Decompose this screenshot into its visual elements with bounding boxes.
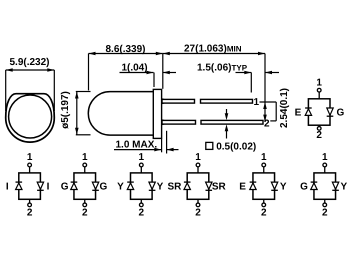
wire pin1 to box S3 [140, 167, 142, 173]
svg-text:Y: Y [117, 182, 124, 193]
wire pin1 to box S2 [84, 167, 86, 173]
bicolor LED symbol S3 [117, 152, 164, 219]
svg-text:G: G [99, 182, 107, 193]
svg-text:ø5(.197): ø5(.197) [60, 91, 71, 129]
svg-text:G: G [61, 182, 69, 193]
pin 1 terminal circle U7 [317, 88, 321, 92]
bicolor LED symbol S1 [6, 152, 50, 219]
right diode (Y) of S6 [332, 182, 338, 189]
wire pin1 to box S4 [197, 167, 199, 173]
box outline S6 [314, 173, 336, 199]
wire pin1 to box S6 [324, 167, 326, 173]
LED top view outer flange circle [6, 94, 55, 142]
dimension phi5(.197) body diameter [60, 91, 91, 135]
pin 1 terminal circle S1 [28, 163, 32, 167]
LED side view epoxy body with dome [88, 92, 153, 136]
wire box to pin2 S3 [140, 199, 142, 203]
svg-text:1(.04): 1(.04) [121, 63, 147, 74]
left diode (E) of S5 [250, 181, 257, 183]
svg-text:2: 2 [27, 208, 33, 219]
svg-text:0.5(0.02): 0.5(0.02) [216, 142, 256, 153]
dimension 8.6(.339) body length [89, 44, 163, 90]
wire box to pin2 U7 [318, 125, 320, 126]
svg-text:1: 1 [195, 152, 201, 163]
bicolor LED symbol S5 [239, 152, 287, 219]
svg-text:2.54(0.1): 2.54(0.1) [279, 88, 290, 128]
lead pin 1 (top) with break [162, 98, 253, 104]
pin 1 terminal circle S3 [139, 163, 143, 167]
right diode (Y) of S5 [271, 182, 277, 189]
pin 2 terminal circle S6 [323, 203, 327, 207]
svg-text:1.0 MAX.: 1.0 MAX. [116, 140, 158, 151]
LED top view inner dome circle [9, 95, 52, 138]
dimension 2.54(0.1) lead pitch [260, 54, 291, 129]
svg-text:2: 2 [316, 130, 322, 141]
box outline S2 [74, 173, 96, 199]
wire box to pin2 S5 [263, 199, 265, 203]
pin 1 terminal circle S5 [262, 163, 266, 167]
left diode (SR) of S4 [184, 181, 191, 183]
svg-text:E: E [295, 108, 302, 119]
pin 2 terminal circle S4 [196, 203, 200, 207]
svg-text:Y: Y [280, 182, 287, 193]
left diode (G) of S6 [311, 181, 318, 183]
dimension 1.5(.06)TYP lead end offset [197, 63, 279, 93]
wire box to pin2 S4 [197, 199, 199, 203]
wire box to pin2 S2 [84, 199, 86, 203]
box outline S1 [19, 173, 41, 199]
box outline U7 [308, 99, 330, 125]
bicolor LED symbol S2 [61, 152, 108, 219]
left diode (Y) of S3 [127, 181, 134, 183]
svg-text:Y: Y [157, 182, 164, 193]
svg-text:1: 1 [254, 97, 260, 108]
pin 2 terminal circle S1 [28, 203, 32, 207]
bicolor LED symbol U7 [295, 77, 345, 140]
pin 2 terminal circle S3 [139, 203, 143, 207]
svg-text:I: I [6, 182, 9, 193]
wire box to pin2 S6 [324, 199, 326, 203]
svg-text:1: 1 [261, 152, 267, 163]
right diode (G) of U7 [327, 108, 333, 115]
dimension 1.0 MAX flange standoff [114, 131, 179, 154]
svg-text:G: G [300, 182, 308, 193]
svg-text:I: I [47, 182, 50, 193]
svg-text:1: 1 [322, 152, 328, 163]
box outline S4 [187, 173, 209, 199]
box outline S3 [131, 173, 153, 199]
left diode (I) of S1 [16, 181, 23, 183]
LED side view flange [153, 89, 161, 138]
wire pin1 to box S5 [263, 167, 265, 173]
svg-text:2: 2 [322, 208, 328, 219]
wire pin1 to box U7 [318, 92, 320, 99]
pin 1 terminal circle S4 [196, 163, 200, 167]
svg-text:5.9(.232): 5.9(.232) [9, 57, 49, 68]
bicolor LED symbol S4 [167, 152, 226, 219]
svg-text:27(1.063)MIN: 27(1.063)MIN [184, 44, 242, 55]
pin 2 terminal circle S5 [262, 203, 266, 207]
svg-text:2: 2 [139, 208, 145, 219]
svg-text:1: 1 [27, 152, 33, 163]
right diode (G) of S2 [92, 182, 98, 189]
left diode (G) of S2 [71, 181, 78, 183]
box outline S5 [253, 173, 275, 199]
pin 1 terminal circle S6 [323, 163, 327, 167]
wire box to pin2 S1 [29, 199, 31, 203]
svg-text:Y: Y [341, 182, 348, 193]
right diode (I) of S1 [37, 182, 43, 189]
svg-text:1: 1 [82, 152, 88, 163]
svg-text:1.5(.06)TYP: 1.5(.06)TYP [197, 63, 248, 74]
svg-text:1: 1 [139, 152, 145, 163]
bicolor LED symbol S6 [300, 152, 347, 219]
dimension 5.9(.232) flange diameter [6, 57, 55, 111]
svg-text:SR: SR [167, 182, 182, 193]
wire pin1 to box S1 [29, 167, 31, 173]
svg-text:2: 2 [261, 208, 267, 219]
dimension square 0.5(0.02) lead thickness [206, 109, 256, 153]
left diode (E) of U7 [305, 107, 312, 109]
lead pin 2 (bottom) with break [162, 119, 263, 125]
svg-text:SR: SR [212, 182, 227, 193]
dimension 1(.04) flange thickness [120, 63, 177, 88]
right diode (Y) of S3 [149, 182, 155, 189]
svg-text:E: E [239, 182, 246, 193]
pin 1 terminal circle S2 [83, 163, 87, 167]
dimension 27(1.063)MIN lead length [163, 44, 265, 89]
svg-text:2: 2 [195, 208, 201, 219]
right diode (SR) of S4 [206, 182, 212, 189]
pin 2 terminal circle S2 [83, 203, 87, 207]
pin 2 terminal circle U7 [317, 127, 321, 131]
svg-text:G: G [337, 108, 345, 119]
svg-text:1: 1 [316, 77, 322, 88]
svg-text:2: 2 [82, 208, 88, 219]
